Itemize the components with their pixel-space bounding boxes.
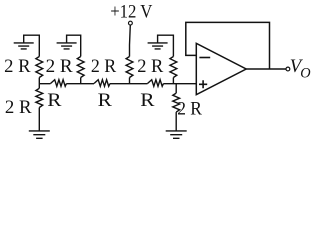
svg-text:R: R xyxy=(140,91,155,111)
svg-text:2 R: 2 R xyxy=(91,57,117,77)
svg-text:R: R xyxy=(98,91,113,111)
svg-text:2 R: 2 R xyxy=(5,98,32,118)
svg-text:O: O xyxy=(300,66,310,82)
svg-text:R: R xyxy=(47,91,62,111)
svg-text:2 R: 2 R xyxy=(46,57,74,77)
svg-text:2 R: 2 R xyxy=(137,57,164,77)
svg-text:2 R: 2 R xyxy=(4,57,31,77)
svg-text:+12 V: +12 V xyxy=(110,3,153,23)
svg-text:2 R: 2 R xyxy=(177,100,202,120)
